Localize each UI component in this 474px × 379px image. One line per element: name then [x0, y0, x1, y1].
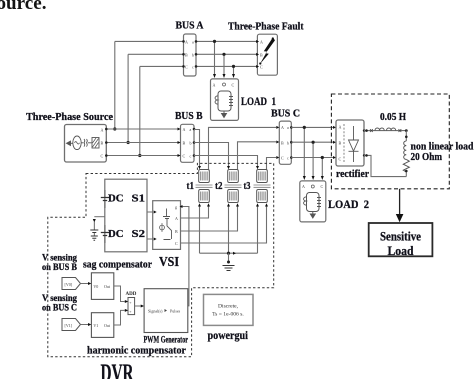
svg-text:A: A — [175, 216, 178, 221]
svg-text:20 Ohm: 20 Ohm — [411, 151, 443, 163]
svg-text:c: c — [192, 64, 194, 69]
svg-text:t2: t2 — [215, 180, 223, 192]
PWM generator block — [144, 289, 188, 333]
svg-text:g: g — [175, 205, 177, 210]
label DC S2 — [108, 228, 146, 240]
wire LOAD1 drop C — [232, 65, 235, 78]
compensator block 1 — [91, 273, 113, 300]
wire riser A — [113, 41, 116, 130]
wire LOAD1 drop A — [213, 40, 216, 78]
wire phase B to t2 and bus C — [194, 142, 276, 170]
bus C block — [276, 121, 292, 164]
wire LOAD2 drop B — [312, 141, 315, 180]
label t2 — [215, 180, 223, 192]
three-phase fault block — [256, 34, 277, 75]
svg-text:A: A — [281, 125, 284, 130]
svg-text:A: A — [185, 39, 188, 44]
svg-text:[V1]: [V1] — [65, 323, 73, 328]
svg-text:A: A — [213, 83, 216, 88]
svg-text:b: b — [287, 141, 289, 146]
svg-text:sag compensator: sag compensator — [83, 259, 152, 271]
svg-text:V sensing: V sensing — [42, 253, 77, 263]
wire tag V1 to compensator 2 — [81, 323, 92, 326]
svg-text:VSI: VSI — [159, 254, 179, 269]
label PWM Generator — [144, 336, 189, 346]
svg-text:DVR: DVR — [101, 360, 135, 379]
wire source row C — [106, 155, 180, 157]
wire riser B — [127, 54, 130, 144]
svg-text:C: C — [339, 157, 342, 162]
svg-text:C: C — [183, 154, 186, 159]
document text fragment — [0, 0, 47, 14]
wire comp1 to ADD — [114, 286, 128, 303]
svg-text:Load: Load — [388, 244, 414, 258]
load 1 block — [211, 79, 239, 121]
sensitive load box — [369, 223, 433, 258]
wire comp2 to ADD — [114, 309, 128, 325]
label BUS B — [175, 110, 203, 122]
compensator block 2 — [91, 313, 113, 338]
svg-text:BUS B: BUS B — [175, 110, 203, 122]
svg-text:Three-Phase Fault: Three-Phase Fault — [228, 21, 304, 33]
svg-text:B: B — [339, 141, 342, 146]
wire sag to VSI dc1 — [147, 211, 153, 213]
wire t1 primary return — [198, 203, 201, 253]
label rectifier — [336, 168, 369, 180]
svg-text:b: b — [190, 141, 192, 146]
powergui block — [204, 294, 254, 325]
svg-text:C: C — [260, 64, 263, 69]
wire phase B top row — [128, 53, 257, 55]
svg-text:BUS C: BUS C — [271, 108, 300, 120]
svg-text:A: A — [302, 184, 305, 189]
svg-text:C: C — [232, 83, 235, 88]
svg-text:on BUS B: on BUS B — [42, 262, 77, 272]
rectifier block — [336, 120, 365, 166]
label 20 Ohm — [411, 151, 443, 163]
label non linear load — [411, 141, 474, 153]
label t1 — [187, 180, 195, 192]
label Three-Phase Fault — [228, 21, 304, 33]
wire sag to VSI dc2 — [147, 238, 153, 240]
sag compensator box — [105, 179, 147, 252]
wire t3 primary return — [256, 203, 259, 253]
transformer t3 — [254, 170, 271, 203]
label Three-Phase Source — [26, 111, 113, 123]
wire VSI B to t2 — [181, 203, 240, 231]
wire bus C to rectifier row A — [291, 126, 336, 129]
wire LOAD2 drop C — [321, 156, 324, 180]
wire rectifier return — [364, 154, 406, 177]
label V sensing on BUS B — [42, 253, 77, 273]
label 0.05 H — [380, 112, 406, 123]
svg-text:B: B — [281, 141, 284, 146]
wire VSI A to t1 — [181, 203, 211, 218]
svg-text:on BUS C: on BUS C — [42, 303, 77, 313]
label ADD — [126, 292, 137, 297]
svg-text:C: C — [101, 154, 104, 159]
wire phase A to t1 and bus C — [194, 127, 276, 169]
svg-text:A: A — [101, 128, 104, 133]
svg-text:rectifier: rectifier — [336, 168, 369, 180]
svg-text:ADD: ADD — [126, 292, 137, 297]
svg-text:V1: V1 — [93, 323, 98, 328]
transformer t1 — [196, 170, 213, 203]
bus B block — [178, 124, 196, 162]
svg-text:c: c — [190, 154, 192, 159]
label BUS C — [271, 108, 300, 120]
three-phase source block — [65, 125, 108, 163]
svg-text:Pulses: Pulses — [170, 309, 181, 314]
svg-text:LOAD 1: LOAD 1 — [241, 94, 276, 108]
load 2 block — [300, 181, 326, 222]
svg-text:b: b — [192, 52, 194, 57]
wire phase C top row — [140, 65, 257, 67]
wire common rail — [200, 252, 258, 255]
wire phase C to t3 and bus C — [194, 156, 276, 170]
svg-text:Out: Out — [104, 323, 111, 328]
svg-text:S1: S1 — [132, 193, 146, 205]
svg-text:A: A — [260, 39, 263, 44]
bus A block — [182, 34, 197, 76]
wire bus C to rectifier row B — [291, 141, 336, 144]
svg-text:B: B — [183, 141, 186, 146]
svg-text:LOAD 2: LOAD 2 — [328, 197, 369, 211]
svg-text:t3: t3 — [244, 180, 251, 192]
svg-text:Three-Phase Source: Three-Phase Source — [26, 111, 113, 123]
label BUS A — [176, 20, 204, 32]
wire PWM to VSI gate — [180, 205, 189, 306]
svg-text:A: A — [183, 127, 186, 132]
svg-text:C: C — [321, 184, 324, 189]
wire riser C — [138, 66, 141, 157]
svg-text:S2: S2 — [132, 228, 146, 240]
svg-text:Sensitive: Sensitive — [380, 230, 421, 244]
wire source row B — [106, 142, 180, 144]
external battery and ground — [90, 217, 105, 241]
svg-text:C: C — [185, 64, 188, 69]
label powergui — [208, 330, 249, 342]
svg-text:B: B — [185, 52, 188, 57]
svg-text:V sensing: V sensing — [42, 293, 77, 303]
wire phase A top row — [115, 40, 257, 42]
svg-text:c: c — [287, 156, 289, 161]
label harmonic compensator — [87, 345, 186, 357]
label LOAD 1 — [241, 94, 276, 108]
transformer t2 — [225, 170, 242, 203]
svg-text:a: a — [192, 39, 194, 44]
svg-text:A: A — [339, 125, 342, 130]
svg-text:C: C — [281, 156, 284, 161]
wire VSI C to t3 — [181, 203, 269, 243]
svg-text:B: B — [101, 141, 104, 146]
wire ADD to PWM — [135, 305, 144, 308]
svg-text:powergui: powergui — [208, 330, 249, 342]
dashed box non linear load region — [331, 94, 449, 189]
svg-text:ource.: ource. — [0, 0, 47, 14]
non linear load element — [403, 131, 409, 177]
label sag compensator — [83, 259, 152, 271]
arrow to sensitive load — [396, 189, 404, 223]
label VSI — [159, 254, 179, 269]
wire rectifier output with 0.05 H inductor — [364, 128, 408, 132]
svg-text:B: B — [260, 52, 263, 57]
wire bus C to rectifier row C — [291, 156, 336, 159]
DVR dashed border — [48, 163, 274, 356]
from tag V1 — [62, 319, 81, 331]
svg-text:Signal(s): Signal(s) — [148, 309, 163, 314]
svg-text:t1: t1 — [187, 180, 195, 192]
label LOAD 2 — [328, 197, 369, 211]
svg-text:V0: V0 — [93, 284, 98, 289]
label t3 — [244, 180, 251, 192]
svg-text:DC: DC — [108, 193, 124, 205]
VSI block — [153, 201, 181, 250]
svg-text:C: C — [175, 241, 178, 246]
svg-text:Discrete,: Discrete, — [218, 304, 239, 310]
wire t2 primary return — [227, 203, 230, 253]
label V sensing on BUS C — [42, 293, 77, 313]
svg-text:B: B — [175, 229, 178, 234]
svg-text:a: a — [190, 127, 192, 132]
label DC S1 — [108, 193, 145, 205]
svg-text:Ts = 1e-006 s.: Ts = 1e-006 s. — [212, 312, 244, 318]
wire LOAD1 drop B — [222, 53, 225, 78]
svg-text:a: a — [287, 125, 289, 130]
svg-text:Out: Out — [104, 284, 111, 289]
wire source row A — [106, 128, 180, 130]
from tag V0 — [62, 278, 81, 290]
svg-text:BUS A: BUS A — [176, 20, 204, 32]
svg-text:0.05 H: 0.05 H — [380, 112, 406, 123]
svg-text:DC: DC — [108, 228, 124, 240]
svg-text:[V0]: [V0] — [65, 282, 73, 287]
DC source S1 — [101, 190, 109, 208]
ADD block — [128, 298, 135, 315]
wire tag V0 to compensator 1 — [81, 282, 92, 285]
svg-text:harmonic compensator: harmonic compensator — [87, 345, 186, 357]
DC source S2 — [101, 225, 109, 243]
wire LOAD2 drop A — [303, 126, 306, 180]
ground symbol — [223, 253, 235, 270]
label DVR — [101, 360, 135, 379]
